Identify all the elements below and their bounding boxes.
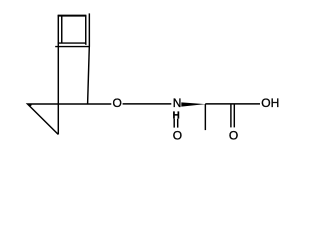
stereo wedge N to CH <box>181 102 205 106</box>
C=O double bond line 2 <box>233 105 235 128</box>
svg-text:H: H <box>172 111 179 122</box>
svg-text:O: O <box>173 128 182 142</box>
methyl bond down <box>204 104 206 130</box>
inner right vertical bond <box>85 15 87 45</box>
inner left vertical bond <box>61 15 63 43</box>
svg-text:O: O <box>112 96 121 110</box>
C=O double bond line 1 <box>230 105 232 128</box>
outer right vertical bond <box>88 13 90 46</box>
backbone bond to carboxyl and OH <box>205 103 260 105</box>
miter fill at cyclopropane-backbone vertex <box>27 104 32 107</box>
ring top edge (merged double line) <box>58 15 87 17</box>
ring bottom edge lower line <box>55 46 90 48</box>
svg-text:OH: OH <box>261 96 279 110</box>
junction tick at inner-right ring corner <box>85 43 87 45</box>
svg-text:N: N <box>173 96 182 110</box>
svg-text:O: O <box>229 128 238 142</box>
N=O double bond line 2 <box>177 119 179 128</box>
ring bottom edge upper line <box>58 42 87 44</box>
left vertical long bond (square left edge + chain + cyclopropane side) <box>57 15 59 135</box>
bond O to N <box>123 103 172 105</box>
cyclopropane hypotenuse + backbone bond to ester O <box>28 104 112 134</box>
N=O double bond line 1 <box>173 119 175 128</box>
right descender bond <box>88 47 90 104</box>
